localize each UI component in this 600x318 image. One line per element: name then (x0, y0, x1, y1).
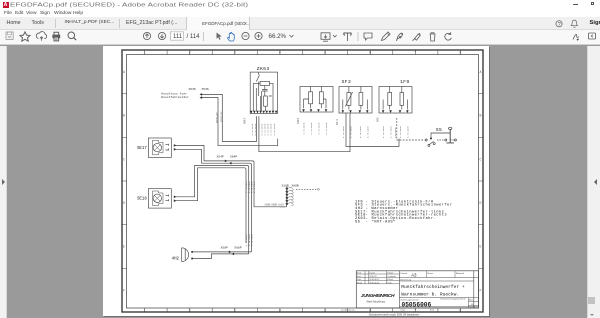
svg-text:0.75-GNYE: 0.75-GNYE (273, 123, 276, 136)
svg-text:0.75-GNYE: 0.75-GNYE (310, 122, 313, 135)
svg-text:4: 4 (279, 308, 281, 312)
svg-text:Format: Format (401, 272, 408, 275)
svg-text:T.Urb: T.Urb (387, 281, 392, 284)
svg-text:X1F1: X1F1 (297, 117, 300, 124)
svg-text:8: 8 (459, 51, 461, 55)
svg-text:Schutzvermerk nach DIN 34 beac: Schutzvermerk nach DIN 34 beachten (369, 312, 420, 315)
svg-text:111: 111 (173, 34, 183, 40)
svg-text:2016-06-13: 2016-06-13 (370, 282, 380, 284)
svg-text:"NOT-AUS": "NOT-AUS" (372, 219, 396, 224)
svg-text:Warnsummer b. Rueckw.: Warnsummer b. Rueckw. (401, 292, 459, 298)
svg-text:0.75-GNYE: 0.75-GNYE (342, 125, 345, 138)
svg-text:X53S: X53S (202, 88, 209, 91)
svg-text:4H2: 4H2 (172, 257, 180, 261)
svg-text:0.75-GNYE: 0.75-GNYE (406, 125, 409, 138)
svg-text:2016-06-13: 2016-06-13 (370, 279, 380, 281)
svg-text:X53S-GY: X53S-GY (221, 111, 224, 122)
svg-text:D: D (123, 201, 125, 205)
svg-text:X10B: X10B (282, 184, 289, 187)
svg-text:Zust Aenderung: Zust Aenderung (341, 308, 354, 311)
svg-text:Benennung: Benennung (401, 279, 412, 281)
svg-text:Status: Status (427, 272, 433, 275)
svg-text:5: 5 (324, 51, 326, 55)
svg-text:D: D (480, 201, 482, 205)
svg-text:Ersb: Ersb (357, 272, 361, 275)
svg-text:0.75-GNYE: 0.75-GNYE (350, 125, 353, 138)
svg-text:SF3: SF3 (342, 79, 352, 85)
svg-text:6x1S: 6x1S (280, 205, 286, 208)
svg-text:X9.5: X9.5 (336, 118, 339, 125)
svg-text:C: C (123, 157, 125, 161)
svg-text:X64P: X64P (230, 156, 237, 159)
svg-text:1: 1 (144, 308, 146, 312)
svg-text:S5: S5 (355, 220, 361, 224)
svg-text:Buch: Buch (357, 276, 361, 278)
svg-text:0.75-GNYE: 0.75-GNYE (382, 125, 385, 138)
svg-text:F: F (123, 288, 125, 292)
svg-text:Datum: Datum (370, 272, 376, 275)
svg-text:X63S-GY: X63S-GY (216, 112, 219, 123)
svg-text:0.75-GNYE: 0.75-GNYE (390, 125, 393, 138)
svg-text:-: - (366, 220, 369, 224)
svg-text:X15-GNYE: X15-GNYE (394, 127, 397, 138)
svg-text:SE18: SE18 (137, 198, 147, 202)
svg-text:66.2%: 66.2% (269, 33, 287, 40)
svg-text:X80B: X80B (292, 184, 299, 187)
svg-text:Gepr: Gepr (357, 278, 362, 281)
svg-text:A: A (123, 70, 125, 74)
svg-text:Blattzahl: Blattzahl (456, 272, 465, 275)
svg-text:1: 1 (144, 51, 146, 55)
svg-text:A: A (480, 70, 482, 74)
svg-text:Werk Moosburg: Werk Moosburg (367, 299, 386, 303)
svg-text:0.75-GNYE: 0.75-GNYE (253, 180, 256, 193)
svg-text:0.75-GNYE: 0.75-GNYE (366, 125, 369, 138)
svg-text:X8F1: X8F1 (243, 117, 246, 124)
svg-text:E: E (123, 245, 125, 249)
svg-text:4: 4 (279, 51, 281, 55)
svg-text:8: 8 (459, 308, 461, 312)
svg-text:B: B (480, 114, 482, 118)
svg-text:J.Name: J.Name (387, 273, 394, 275)
svg-text:X54P: X54P (217, 156, 224, 159)
svg-text:3: 3 (234, 308, 236, 312)
svg-text:Urspr: Urspr (401, 308, 406, 311)
svg-text:Bearb: Bearb (357, 281, 362, 284)
svg-text:X63S: X63S (189, 88, 196, 91)
svg-text:ZK63: ZK63 (257, 66, 270, 72)
svg-text:5: 5 (324, 308, 326, 312)
svg-text:X68P: X68P (234, 246, 241, 249)
svg-text:3: 3 (234, 51, 236, 55)
svg-text:Ersatzzeichnungsnummern: Ersatzzeichnungsnummern (441, 298, 467, 301)
svg-text:X6S: X6S (377, 117, 380, 122)
svg-text:0.75-GNYE: 0.75-GNYE (303, 122, 306, 135)
svg-text:0.75-GNYE: 0.75-GNYE (250, 233, 253, 246)
svg-text:JUNGHEINRICH: JUNGHEINRICH (361, 293, 395, 299)
svg-text:Rueckfahrmelder: Rueckfahrmelder (161, 95, 189, 99)
svg-text:E: E (480, 245, 482, 249)
svg-text:X58P: X58P (221, 246, 228, 249)
svg-text:A3: A3 (411, 273, 417, 278)
svg-text:S.Reid: S.Reid (387, 279, 393, 281)
svg-text:2: 2 (189, 308, 191, 312)
svg-text:Ersd: Ersd (430, 308, 434, 311)
svg-text:2: 2 (189, 51, 191, 55)
svg-text:SE17: SE17 (137, 147, 147, 151)
svg-text:1F9: 1F9 (400, 79, 410, 85)
svg-text:B: B (123, 114, 125, 118)
svg-text:2016-78: 2016-78 (370, 276, 377, 278)
svg-text:05056006: 05056006 (402, 302, 432, 309)
svg-text:7: 7 (414, 51, 416, 55)
svg-text:0.75-GNYE: 0.75-GNYE (359, 125, 362, 138)
svg-text:Rueckfahrscheinwerfer +: Rueckfahrscheinwerfer + (401, 284, 465, 290)
svg-text:J.Lightmbr: J.Lightmbr (387, 275, 396, 278)
svg-text:0.75-GNYE: 0.75-GNYE (325, 122, 328, 135)
svg-text:F: F (480, 288, 482, 292)
svg-text:10 16: 10 16 (470, 307, 476, 309)
svg-text:0.75-GNYE: 0.75-GNYE (399, 125, 402, 138)
svg-text:/ 114: / 114 (187, 34, 201, 40)
svg-text:?: ? (558, 21, 561, 27)
svg-text:C: C (480, 157, 482, 161)
svg-text:S5: S5 (436, 127, 442, 133)
svg-text:6: 6 (369, 51, 371, 55)
svg-text:Blatt: Blatt (469, 298, 473, 301)
svg-text:0.75-GNYE: 0.75-GNYE (318, 122, 321, 135)
